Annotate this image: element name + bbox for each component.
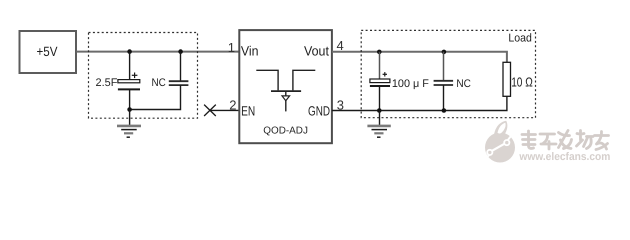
svg-text:10 Ω: 10 Ω [511, 75, 533, 90]
wire NC cap top lead [180, 52, 182, 82]
op IC U1 QOD-ADJ box [239, 30, 332, 143]
dashed box Load [361, 30, 535, 117]
svg-text:Load: Load [508, 33, 532, 45]
dashed box input filter [89, 33, 198, 119]
svg-text:Vin: Vin [241, 44, 259, 59]
svg-text:1: 1 [228, 40, 235, 55]
wire 100uF top lead [379, 52, 381, 79]
node output cap junction top [377, 50, 382, 55]
wire ground stub left [129, 110, 131, 126]
wire resistor bottom lead [332, 96, 507, 110]
node ground junction left [127, 107, 132, 112]
wire NC2 bottom lead [443, 85, 445, 111]
svg-text:100 μ F: 100 μ F [392, 78, 429, 90]
wire 2.5F top lead [129, 52, 131, 80]
no-connect X on EN [204, 105, 216, 116]
svg-text:EN: EN [241, 104, 255, 119]
wire NC cap bottom lead [130, 85, 181, 109]
node NC2 junction top [442, 50, 447, 55]
capacitor C3 100uF polarized [370, 72, 429, 90]
wire EN pin 2 [210, 109, 239, 111]
resistor R1 10 ohm [503, 62, 533, 96]
ground load [367, 126, 390, 137]
svg-text:2: 2 [229, 97, 236, 112]
wire from +5V to Vin (pin 1) [76, 51, 239, 53]
node ground junction load [377, 108, 382, 113]
svg-text:GND: GND [308, 104, 330, 119]
svg-text:QOD-ADJ: QOD-ADJ [263, 125, 308, 136]
node input cap junction [127, 49, 132, 54]
wire ground stub load [379, 111, 381, 126]
capacitor C1 2.5F polarized [96, 73, 141, 90]
svg-text:Vout: Vout [304, 44, 329, 59]
svg-text:NC: NC [152, 77, 166, 89]
watermark chinese calligraphy strokes [522, 131, 610, 151]
wire 2.5F bottom lead [129, 90, 131, 110]
capacitor C2 NC [152, 77, 189, 89]
svg-text:2.5F: 2.5F [96, 77, 118, 89]
svg-text:www.elecfans.com: www.elecfans.com [518, 151, 610, 163]
wire Vout pin 4 to load [332, 52, 507, 63]
wire NC2 top lead [443, 52, 445, 81]
watermark url text [518, 151, 611, 164]
svg-text:NC: NC [456, 78, 471, 90]
watermark logo disc [485, 121, 515, 163]
capacitor C4 NC [434, 78, 471, 90]
ground left [117, 126, 141, 137]
node NC2 junction bottom [442, 108, 447, 113]
transistor Q1 pass FET [256, 70, 315, 111]
wire 100uF bottom lead [379, 86, 381, 111]
source box +5V [20, 31, 77, 73]
svg-text:+5V: +5V [37, 44, 58, 59]
node NC cap junction [178, 49, 183, 54]
